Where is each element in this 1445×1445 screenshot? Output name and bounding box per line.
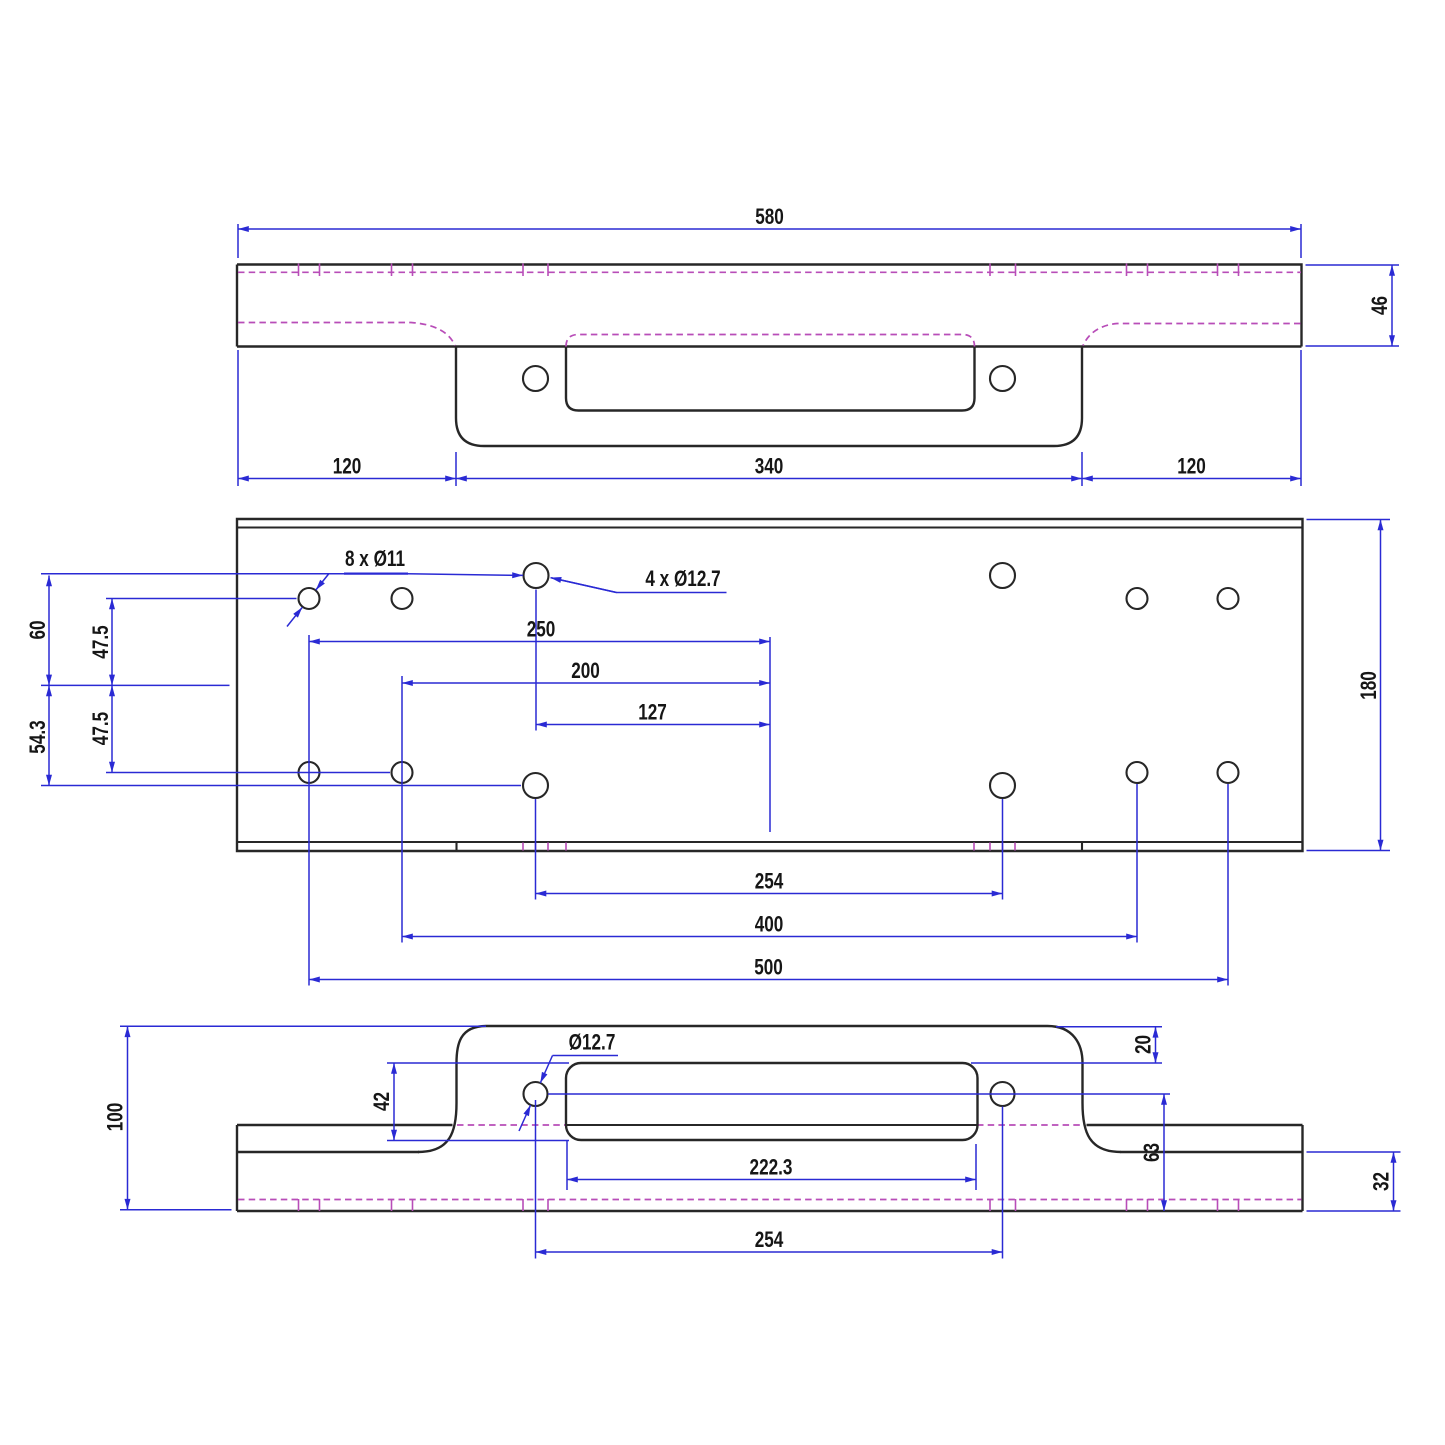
view2 top inner edge xyxy=(237,526,1303,528)
dimension 400 line xyxy=(402,936,1137,938)
svg-text:47.5: 47.5 xyxy=(89,625,114,658)
dimension 250 line xyxy=(309,641,770,643)
dimension 54.3 ext xyxy=(41,785,521,787)
svg-text:222.3: 222.3 xyxy=(750,1156,793,1181)
dimension 47.5 lower ext xyxy=(106,772,390,774)
hole Ø11 top row xyxy=(299,588,320,609)
Ø11 leader lower segment xyxy=(287,607,302,626)
svg-text:580: 580 xyxy=(755,205,784,230)
view3 right S-bend xyxy=(1048,1026,1122,1152)
svg-text:200: 200 xyxy=(571,659,600,684)
svg-text:42: 42 xyxy=(370,1092,395,1111)
dimension 100 line xyxy=(127,1026,129,1209)
view3 left S-bend xyxy=(418,1026,486,1152)
extension vertical at x536 xyxy=(535,590,537,731)
label Ø12.7 leader upper arrow xyxy=(540,1056,552,1084)
view3 left wing inner edge xyxy=(237,1151,419,1153)
svg-text:32: 32 xyxy=(1370,1172,1395,1191)
view1 hidden line A xyxy=(238,271,1301,273)
dimension 580 extension lines xyxy=(238,224,1301,258)
svg-text:500: 500 xyxy=(754,956,783,981)
dimension 180 line xyxy=(1380,520,1382,851)
view1 hole right xyxy=(990,366,1015,391)
dimension 180 ext xyxy=(1307,520,1391,851)
svg-text:340: 340 xyxy=(755,455,784,480)
dimension 47.5 upper line xyxy=(111,599,113,686)
svg-text:254: 254 xyxy=(755,1228,784,1253)
view2 hidden ticks right xyxy=(974,843,1015,851)
dimension 120 right line xyxy=(1082,478,1301,480)
dimension 500 ext xyxy=(1227,784,1229,986)
dimension 200 line xyxy=(402,682,770,684)
dimension 42 line xyxy=(393,1063,395,1141)
dimension 46 line xyxy=(1391,265,1393,346)
view3 right wing top edge xyxy=(1087,1124,1303,1126)
view3 bottom edge xyxy=(237,1210,1303,1212)
view1 hidden bend line left xyxy=(238,323,455,346)
dimension 54.3 line xyxy=(48,685,50,785)
svg-text:Ø12.7: Ø12.7 xyxy=(569,1031,616,1056)
view3 hidden wing line right (dashed) xyxy=(977,1124,1082,1126)
dimension 47.5 upper ext xyxy=(106,598,297,600)
svg-text:120: 120 xyxy=(1177,455,1206,480)
dimension 120 left line xyxy=(238,478,456,480)
view3 hidden hole ticks xyxy=(299,1199,1239,1211)
bottom dims extension lines xyxy=(238,350,1301,486)
dimension 254 line xyxy=(536,1251,1003,1253)
dimension 254 ext xyxy=(536,1100,1003,1259)
view3 hidden wing line left (dashed) xyxy=(457,1124,566,1126)
dimension 47.5 lower line xyxy=(111,685,113,772)
view3 hole left Ø12.7 xyxy=(524,1082,548,1106)
svg-text:127: 127 xyxy=(638,701,667,726)
svg-text:8 x Ø11: 8 x Ø11 xyxy=(345,547,405,572)
view1 recessed step cutout xyxy=(456,347,1082,447)
svg-text:100: 100 xyxy=(104,1103,129,1132)
view3 raised top edge xyxy=(486,1025,1048,1027)
svg-text:4 x Ø12.7: 4 x Ø12.7 xyxy=(645,567,720,592)
view1 hidden bend line right xyxy=(1083,324,1301,346)
svg-text:46: 46 xyxy=(1368,296,1393,315)
svg-text:20: 20 xyxy=(1132,1035,1157,1054)
label 8 x Ø11 underline with arrow to Ø12.7 hole xyxy=(41,574,523,576)
svg-text:54.3: 54.3 xyxy=(26,720,51,753)
center plane line xyxy=(41,684,230,686)
dimension 127 line xyxy=(536,724,770,726)
extension verticals for 250/500 at x309 xyxy=(308,635,310,986)
dimension 42 ext xyxy=(387,1063,569,1141)
Ø11 leader upper segment xyxy=(316,574,329,591)
dimension 63 ext xyxy=(548,1093,1170,1095)
dimension 254 line xyxy=(536,893,1003,895)
svg-text:63: 63 xyxy=(1140,1143,1165,1162)
label Ø12.7 leader lower arrow xyxy=(519,1105,531,1131)
svg-text:400: 400 xyxy=(755,913,784,938)
svg-text:47.5: 47.5 xyxy=(89,712,114,745)
svg-text:180: 180 xyxy=(1357,671,1382,700)
dimension 222.3 ext xyxy=(567,1141,976,1190)
label Ø12.7 leader underline xyxy=(553,1055,619,1057)
dimension 500 line xyxy=(309,979,1228,981)
svg-text:120: 120 xyxy=(333,455,362,480)
view2 hidden ticks left xyxy=(523,843,566,851)
view1 fairlead slot hidden top (dashed) xyxy=(566,335,975,347)
dimension 580 line xyxy=(238,228,1301,230)
view2 bottom inner edge xyxy=(237,841,1303,843)
view2 step seam ticks xyxy=(457,842,1083,851)
view3 hidden bottom line (dashed) xyxy=(238,1199,1302,1201)
hole Ø12.7 set xyxy=(524,563,549,588)
dimension 254 ext xyxy=(536,799,1003,900)
svg-text:254: 254 xyxy=(755,870,784,895)
view3 left edge xyxy=(236,1125,238,1211)
dimension 222.3 line xyxy=(567,1179,976,1181)
view3 right edge xyxy=(1301,1125,1303,1211)
view1 fairlead slot visible part xyxy=(566,347,975,411)
winch center vertical at x770 xyxy=(769,637,771,832)
svg-text:60: 60 xyxy=(26,620,51,639)
dimension 400 ext xyxy=(1136,784,1138,943)
dimension 20 ext xyxy=(971,1027,1162,1063)
view3 fairlead slot xyxy=(566,1063,978,1140)
view1 hidden hole ticks xyxy=(299,264,1239,277)
view3 wing edge seen through slot (solid) xyxy=(566,1124,977,1126)
dimension 340 line xyxy=(456,478,1082,480)
view1 fold line full width xyxy=(237,345,1302,347)
label 4 x Ø12.7 leader xyxy=(552,578,727,593)
dimension 63 line xyxy=(1163,1094,1165,1211)
view1 hole left xyxy=(523,366,548,391)
svg-text:250: 250 xyxy=(527,618,556,643)
view3 hole right Ø12.7 xyxy=(991,1082,1015,1106)
view3 left wing top edge xyxy=(237,1124,453,1126)
dimension 20 line xyxy=(1155,1027,1157,1063)
hole Ø11 bottom row xyxy=(299,762,320,783)
dimension 60 line xyxy=(48,576,50,686)
extension vertical at x402 xyxy=(401,676,403,943)
view3 right wing inner edge xyxy=(1121,1151,1303,1153)
dimension 32 line xyxy=(1393,1152,1395,1211)
view2 plate rectangle xyxy=(237,519,1303,851)
dimension 46 extension lines xyxy=(1306,265,1400,346)
view1 plate outline xyxy=(237,265,1302,347)
dimension 32 ext xyxy=(1307,1152,1401,1211)
dimension 100 ext xyxy=(120,1026,486,1209)
